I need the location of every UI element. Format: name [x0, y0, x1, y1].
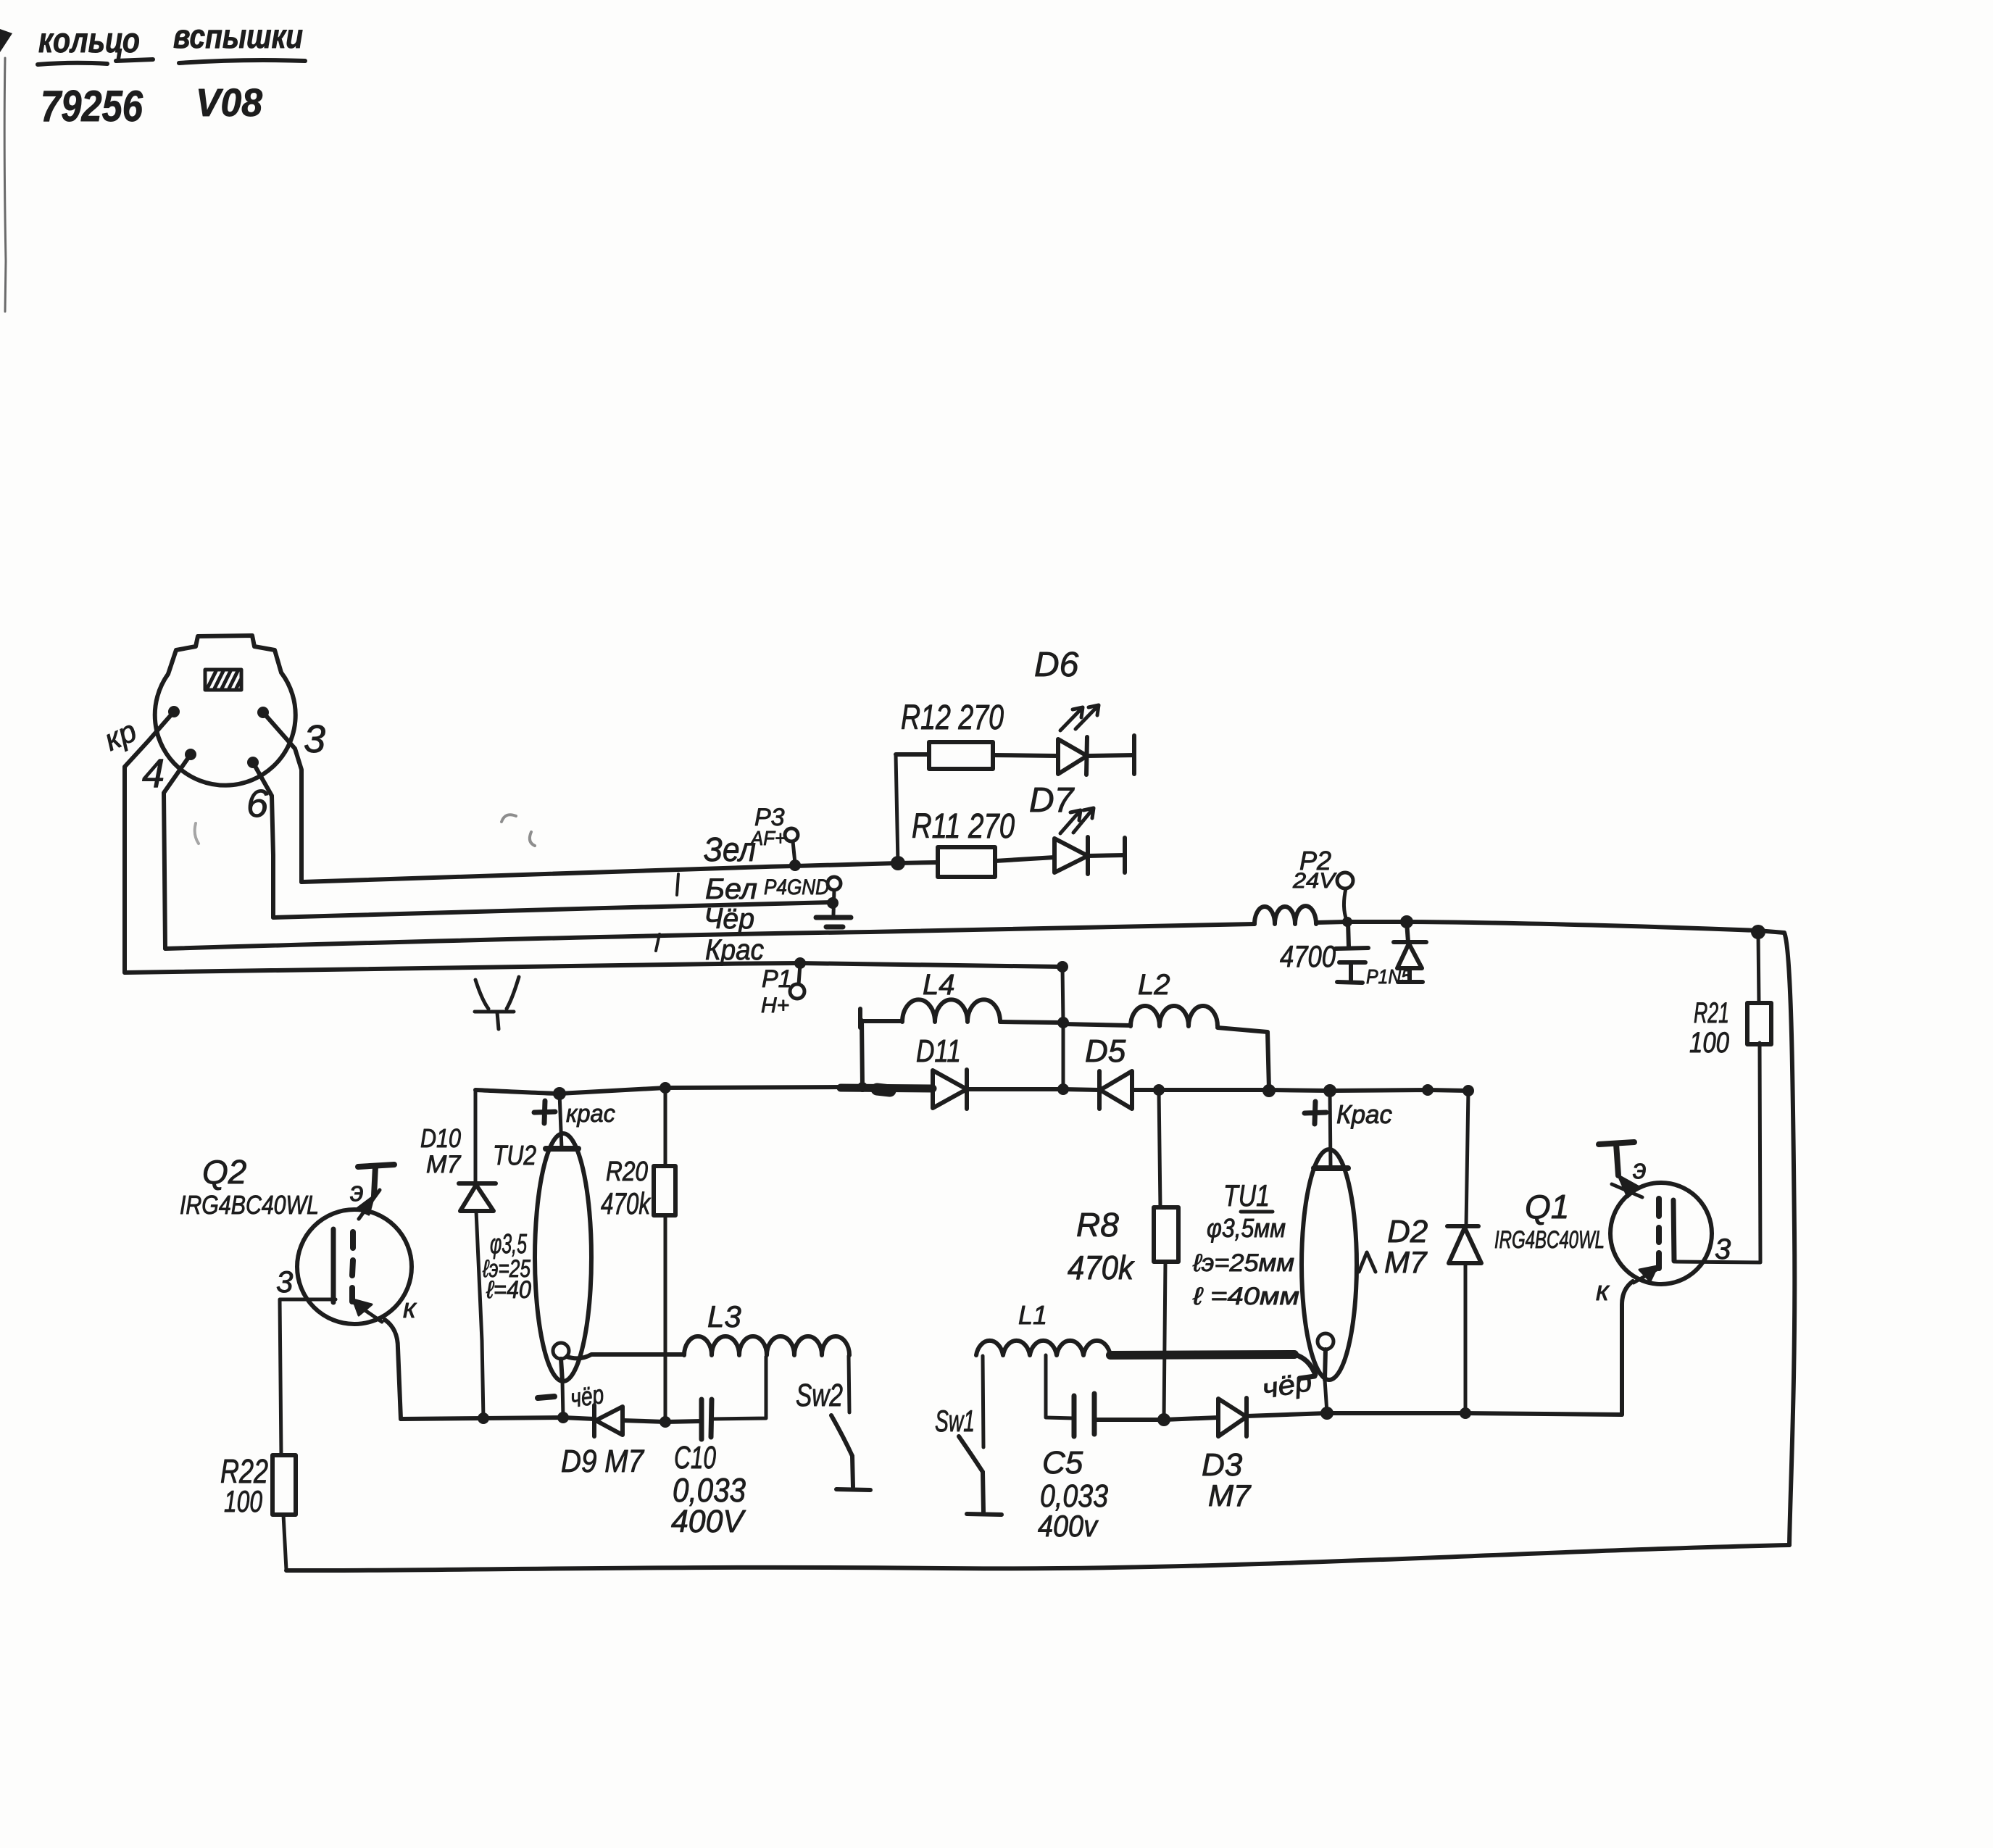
Q1 emitter diagonal and arrow: [1612, 1184, 1642, 1197]
svg-text:C5: C5: [1042, 1445, 1083, 1481]
node bus/L2: [1262, 1084, 1276, 1097]
svg-text:P1N5: P1N5: [1366, 965, 1411, 988]
diode D7 (LED): [1054, 837, 1125, 874]
wire R20 top lead: [664, 1088, 667, 1166]
capacitor C5: [1074, 1394, 1094, 1436]
wire R22 bottom: [283, 1515, 286, 1570]
wire Sw2 drop: [849, 1356, 849, 1412]
svg-text:D3: D3: [1202, 1447, 1243, 1483]
label + (TU2): [534, 1101, 555, 1123]
wire D10 branch from bus corner: [474, 1090, 478, 1183]
choke on Чёр wire: [1255, 906, 1316, 924]
node C5/R8/D3: [1157, 1413, 1170, 1426]
wire TU1 anode lead: [1330, 1091, 1331, 1168]
title underline left: [38, 63, 107, 64]
node bus/TU1 anode: [1323, 1084, 1336, 1097]
diode P1N5 (TVS): [1394, 922, 1426, 982]
wire Чёр choke to P2: [1316, 922, 1347, 923]
svg-text:крас: крас: [566, 1100, 615, 1128]
D7 emission arrows: [1060, 808, 1094, 833]
L4 left end bar: [858, 1009, 862, 1028]
diode D9: [594, 1405, 623, 1436]
title underline right: [179, 60, 305, 63]
svg-text:D5: D5: [1085, 1033, 1126, 1069]
svg-text:Бел: Бел: [705, 873, 757, 905]
svg-text:L4: L4: [923, 969, 955, 1001]
wire Sw1 drop: [983, 1356, 983, 1447]
svg-text:Крас: Крас: [705, 934, 764, 966]
svg-text:V08: V08: [196, 81, 262, 125]
wire Q1 gate to R21: [1676, 1043, 1760, 1262]
wire R21 top lead: [1758, 933, 1759, 1003]
diode D5: [1099, 1071, 1132, 1109]
resistor R12: [929, 742, 993, 769]
wire pin 3 down: [263, 712, 301, 882]
resistor R8: [1154, 1207, 1178, 1262]
wire outer bottom: [286, 1545, 1789, 1570]
svg-text:4: 4: [142, 750, 165, 796]
wire D3 to TU1 node: [1247, 1413, 1327, 1416]
inductor L4: [860, 999, 1060, 1023]
svg-text:400V: 400V: [671, 1504, 746, 1539]
terminal P2 24V: [1292, 846, 1353, 920]
wire Крас (red): [125, 963, 1062, 973]
flash tube TU2: [535, 1133, 591, 1381]
inductor L1: [976, 1341, 1110, 1355]
wire L1 to TU1 thick: [1110, 1354, 1294, 1355]
lamp sketch below wires: [475, 977, 519, 1029]
node bus mid: [1422, 1084, 1434, 1096]
svg-text:IRG4BC40WL: IRG4BC40WL: [1494, 1226, 1605, 1254]
resistor R22: [272, 1455, 296, 1515]
node Чёр/P2/C: [1342, 917, 1352, 927]
wire L1 to C5 drop: [1046, 1355, 1074, 1418]
resistor R11: [938, 847, 995, 877]
wire Чёр (black): [165, 924, 1255, 949]
resistor R21: [1747, 1003, 1771, 1044]
svg-text:Q1: Q1: [1525, 1188, 1569, 1225]
wire L2 right drop to bus: [1268, 1032, 1269, 1089]
Q2 collector diagonal and arrow: [352, 1302, 382, 1322]
svg-text:H+: H+: [761, 994, 789, 1017]
Q1 collector diagonal and arrow: [1634, 1268, 1659, 1283]
terminal P1 H+: [761, 965, 804, 1017]
node bus/R8: [1153, 1084, 1165, 1096]
wire TU2 anode lead: [559, 1094, 562, 1149]
wire C5 to node: [1094, 1418, 1164, 1422]
wire R20 bottom lead: [664, 1215, 667, 1422]
wire bottom right cell: [1327, 1413, 1622, 1415]
inductor L2: [1063, 1006, 1268, 1032]
svg-text:100: 100: [1689, 1027, 1729, 1059]
node bus/D2: [1462, 1085, 1474, 1096]
svg-text:φ3,5мм: φ3,5мм: [1207, 1213, 1286, 1243]
svg-text:L3: L3: [707, 1299, 741, 1333]
Q1 gate bar: [1673, 1200, 1674, 1261]
wire R12 to D6: [993, 755, 1058, 756]
wire R8 bottom lead: [1164, 1262, 1165, 1420]
svg-text:R11 270: R11 270: [912, 807, 1015, 846]
svg-text:3: 3: [276, 1265, 293, 1299]
wire pin кр down: [125, 712, 174, 973]
svg-text:к: к: [1596, 1276, 1610, 1307]
svg-text:24V: 24V: [1292, 869, 1337, 893]
Q1 collector-emitter bar dashed: [1656, 1199, 1662, 1268]
svg-text:к: к: [403, 1294, 417, 1324]
svg-text:кольцо: кольцо: [38, 22, 140, 60]
node TU1 cathode bottom: [1320, 1407, 1333, 1420]
node bus/Крас: [1057, 1083, 1069, 1095]
bus wire D5 to R8 node: [1132, 1088, 1159, 1092]
svg-text:P1: P1: [762, 965, 792, 993]
TU1 чёр dash: [1299, 1376, 1315, 1378]
D2 small triangle mark: [1359, 1252, 1376, 1272]
faint pencil arc 2: [195, 823, 199, 844]
D6 emission arrows: [1060, 705, 1099, 731]
node Чёр/R21: [1751, 925, 1765, 939]
node bus/TU2 anode: [553, 1087, 566, 1100]
node D2 bottom: [1460, 1407, 1471, 1419]
svg-text:вспышки: вспышки: [173, 17, 303, 55]
svg-text:M7: M7: [426, 1151, 461, 1178]
node TU2 cathode bottom: [557, 1412, 569, 1423]
node Зел/R11/R12: [891, 856, 905, 870]
svg-text:R12 270: R12 270: [901, 699, 1004, 737]
pin 4: [185, 749, 196, 760]
title underline dash: [116, 59, 153, 61]
stray tick 1: [677, 874, 678, 895]
svg-text:79256: 79256: [41, 82, 143, 130]
page edge line: [4, 58, 6, 312]
Q2 emitter diagonal and arrow: [359, 1190, 380, 1219]
pin кр: [168, 706, 180, 717]
node Зел/P3: [789, 860, 801, 871]
node bus/L4 left: [857, 1082, 867, 1092]
svg-text:D10: D10: [420, 1123, 461, 1153]
flash tube TU1: [1302, 1149, 1357, 1380]
wire TU2 to L3: [567, 1354, 684, 1358]
connector X1 body: [155, 636, 296, 786]
svg-text:470k: 470k: [1068, 1249, 1135, 1286]
bus wire to D5: [1063, 1089, 1099, 1090]
connector keyway hatched rect: [205, 670, 241, 690]
svg-text:R20: R20: [606, 1157, 648, 1187]
diode D11: [933, 1070, 967, 1109]
svg-text:R8: R8: [1076, 1206, 1119, 1244]
wire Чёр to right corner: [1407, 922, 1784, 933]
svg-text:Крас: Крас: [1336, 1099, 1392, 1129]
wire R11: [898, 862, 938, 863]
svg-text:D6: D6: [1034, 646, 1079, 684]
wire outer right vertical: [1784, 933, 1794, 1545]
terminal P4 GND: [764, 875, 851, 927]
capacitor C10: [702, 1399, 712, 1439]
wire D9 to R20 node to C10: [623, 1420, 702, 1422]
svg-text:AF+: AF+: [749, 827, 786, 849]
svg-text:L1: L1: [1018, 1300, 1047, 1330]
svg-text:кр: кр: [99, 713, 142, 757]
svg-text:ℓ =40мм: ℓ =40мм: [1192, 1283, 1299, 1310]
capacitor 4700: [1336, 922, 1368, 983]
wire R8 top lead: [1159, 1090, 1160, 1207]
diode D3: [1218, 1398, 1247, 1436]
wire Бел (white): [273, 902, 833, 917]
node Крас corner: [1057, 961, 1068, 973]
bus ink blob: [877, 1089, 890, 1091]
svg-text:Sw2: Sw2: [796, 1378, 843, 1413]
label + (TU1): [1305, 1102, 1326, 1124]
svg-text:чёр: чёр: [568, 1379, 605, 1413]
wire bottom left cell: [401, 1418, 594, 1419]
Q2 collector-emitter bar dashed: [352, 1232, 353, 1302]
diode D2: [1447, 1226, 1481, 1263]
page edge corner mark: [0, 29, 12, 52]
resistor R20: [654, 1166, 675, 1215]
switch Sw1: [959, 1436, 1002, 1515]
wire Q1 collector: [1622, 1281, 1633, 1415]
inductor L3: [684, 1336, 849, 1355]
bus wire R8 node to TU1: [1159, 1090, 1468, 1091]
wire to R12: [896, 752, 929, 757]
wire D10 down to bottom: [476, 1211, 483, 1418]
svg-text:C10: C10: [674, 1440, 716, 1476]
wire D2 top lead: [1466, 1091, 1468, 1226]
node D10 bottom: [478, 1412, 489, 1424]
svg-text:чёр: чёр: [1260, 1367, 1314, 1405]
wire pin 4 down: [164, 754, 191, 949]
wire C10 right up to L3: [712, 1357, 766, 1419]
svg-text:R21: R21: [1694, 997, 1729, 1029]
wire Чёр P2 to zener: [1347, 920, 1407, 924]
wire pin 6 down: [253, 762, 273, 917]
title: кольцо вспышки: [38, 17, 303, 60]
faint pencil arc 1: [502, 815, 535, 846]
svg-text:M7: M7: [1208, 1478, 1252, 1512]
svg-text:400v: 400v: [1038, 1509, 1099, 1543]
node L4/L2/Крас riser: [1057, 1017, 1069, 1028]
wire D2 bottom lead: [1464, 1263, 1468, 1413]
svg-text:D7: D7: [1029, 781, 1075, 820]
svg-text:D9 M7: D9 M7: [561, 1444, 644, 1479]
diode D6 (LED): [1058, 736, 1134, 775]
bus wire D11 to Крас node: [967, 1087, 1063, 1091]
svg-text:P4GND: P4GND: [764, 875, 829, 899]
svg-text:IRG4BC40WL: IRG4BC40WL: [180, 1190, 319, 1220]
switch Sw2: [831, 1415, 870, 1490]
wire L4 left riser: [862, 1020, 862, 1087]
wire Зел (green): [301, 863, 898, 882]
wire Q2 gate to R22: [280, 1299, 336, 1455]
transistor Q1 circle: [1610, 1183, 1712, 1284]
svg-text:Q2: Q2: [202, 1153, 246, 1191]
svg-text:Чёр: Чёр: [704, 903, 754, 935]
node Чёр/zener: [1400, 915, 1413, 928]
Q2 emitter bar: [358, 1165, 394, 1196]
svg-text:M7: M7: [1384, 1245, 1428, 1279]
label - (TU2 cathode): [538, 1397, 554, 1398]
node Бел/P4: [827, 897, 839, 909]
stray tick 2: [656, 934, 660, 951]
wire TU2 cathode down: [562, 1381, 563, 1418]
svg-text:э: э: [350, 1177, 364, 1207]
bus wire left segment: [475, 1087, 841, 1094]
svg-text:100: 100: [224, 1484, 262, 1518]
Q1 emitter bar: [1599, 1142, 1634, 1175]
wire Q2 collector: [385, 1320, 401, 1419]
wire node to D3: [1164, 1418, 1218, 1420]
svg-text:D2: D2: [1387, 1214, 1428, 1249]
svg-text:Зел: Зел: [704, 831, 756, 868]
terminal P3 AF+: [749, 804, 798, 863]
svg-text:L2: L2: [1138, 969, 1170, 1001]
svg-text:Sw1: Sw1: [935, 1404, 975, 1438]
svg-text:TU2: TU2: [493, 1141, 536, 1171]
pin 6: [247, 757, 259, 768]
wire riser to R12: [896, 754, 898, 863]
node R20 top: [660, 1082, 671, 1094]
svg-text:ℓэ=25мм: ℓэ=25мм: [1192, 1249, 1294, 1277]
pin 3: [257, 707, 269, 718]
wire thick bend to TU1: [1294, 1354, 1315, 1375]
svg-text:4700: 4700: [1280, 939, 1336, 973]
wire TU1 cathode down: [1325, 1380, 1327, 1412]
svg-text:э: э: [1633, 1154, 1647, 1185]
Q2 gate bar: [331, 1229, 336, 1302]
wire Крас vertical down to bus: [1062, 967, 1063, 1089]
transistor Q2 circle: [297, 1210, 412, 1324]
svg-text:ℓ=40: ℓ=40: [486, 1276, 531, 1304]
svg-text:TU1: TU1: [1223, 1178, 1270, 1212]
node R20 bottom: [660, 1416, 671, 1428]
node Крас/P1: [794, 957, 806, 969]
svg-text:D11: D11: [916, 1033, 961, 1069]
TU1 underline: [1241, 1210, 1273, 1214]
svg-text:3: 3: [304, 717, 325, 761]
diode D10: [459, 1183, 496, 1211]
svg-text:470k: 470k: [601, 1186, 651, 1220]
bus wire thick segment: [841, 1088, 933, 1089]
wire R11 to D7: [995, 857, 1054, 861]
